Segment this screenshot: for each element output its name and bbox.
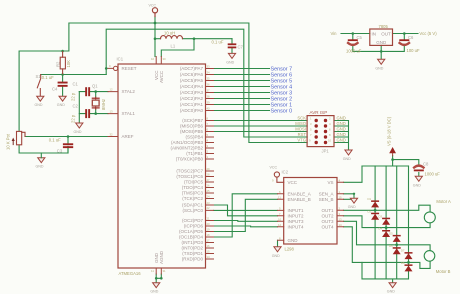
svg-text:10 K Pot: 10 K Pot xyxy=(6,133,11,150)
inductor L1 xyxy=(161,36,183,39)
svg-text:15: 15 xyxy=(339,195,343,199)
IC1 port C pin names xyxy=(176,169,203,213)
svg-text:1: 1 xyxy=(339,190,341,194)
svg-text:L298: L298 xyxy=(285,246,295,251)
svg-text:C5: C5 xyxy=(357,35,363,40)
svg-text:GND: GND xyxy=(36,165,44,169)
svg-text:(SS)PB4: (SS)PB4 xyxy=(185,135,203,140)
svg-text:24: 24 xyxy=(207,194,211,198)
Q1 labels xyxy=(92,84,106,110)
C8 labels xyxy=(423,162,440,177)
ground chip bottom xyxy=(150,283,159,294)
svg-text:8MHz: 8MHz xyxy=(101,99,106,110)
wire R2 bottom net to switch and reset xyxy=(41,74,107,76)
svg-text:(TOSC1)PC6: (TOSC1)PC6 xyxy=(176,174,203,179)
IC1 port B pin names xyxy=(170,118,203,162)
svg-text:10 uH: 10 uH xyxy=(164,31,175,36)
wire SCK MISO MOSI to ISP xyxy=(214,121,308,132)
svg-text:(T0/XCK)PB0: (T0/XCK)PB0 xyxy=(176,157,204,162)
svg-text:(ADC1)PA1: (ADC1)PA1 xyxy=(180,102,204,107)
svg-text:GND: GND xyxy=(57,103,65,107)
wire PD7 to INPUT3 xyxy=(214,220,278,223)
D7 label xyxy=(401,249,405,253)
IC2 left pin stubs xyxy=(278,194,284,241)
svg-text:(AIN1/OC0)PB3: (AIN1/OC0)PB3 xyxy=(171,140,204,145)
diode D8 xyxy=(405,264,413,271)
svg-text:8: 8 xyxy=(329,133,331,137)
svg-text:15: 15 xyxy=(207,249,211,253)
wire regulator cap stems and ground rail xyxy=(353,34,405,60)
capacitor C4 xyxy=(58,82,68,87)
svg-text:L1: L1 xyxy=(171,44,176,49)
svg-text:(TXD)PD1: (TXD)PD1 xyxy=(182,251,203,256)
svg-text:(INT0)PD2: (INT0)PD2 xyxy=(181,246,203,251)
svg-text:19: 19 xyxy=(207,227,211,231)
ground under ISP xyxy=(343,150,352,161)
wire C3 top stem xyxy=(67,137,69,144)
svg-text:36: 36 xyxy=(207,82,211,86)
svg-text:(T1)PB1: (T1)PB1 xyxy=(186,151,203,156)
svg-text:S1: S1 xyxy=(36,74,42,79)
svg-text:C6: C6 xyxy=(408,35,414,40)
svg-text:VTG: VTG xyxy=(297,138,306,143)
svg-text:(OC1A)PD5: (OC1A)PD5 xyxy=(179,229,204,234)
svg-text:SEN_A: SEN_A xyxy=(319,192,334,197)
svg-text:Sensor 0: Sensor 0 xyxy=(271,109,293,115)
ground under C7 xyxy=(226,53,235,64)
svg-text:11: 11 xyxy=(151,269,154,273)
op IC1 ATMEGA16 body xyxy=(118,64,206,268)
svg-text:9: 9 xyxy=(309,139,311,143)
svg-text:Motor A: Motor A xyxy=(436,199,451,204)
svg-text:22 p: 22 p xyxy=(71,92,76,101)
op IC2 L298 body xyxy=(284,178,337,245)
svg-text:D4: D4 xyxy=(379,227,383,231)
IC2 name label xyxy=(282,170,289,175)
svg-text:SEN_B: SEN_B xyxy=(319,197,334,202)
svg-text:GND: GND xyxy=(413,183,421,187)
svg-text:MOSI: MOSI xyxy=(295,127,306,132)
capacitor C2 xyxy=(85,109,90,118)
L1 labels xyxy=(164,31,176,49)
D1 label xyxy=(368,197,372,201)
wire AREF net from pot wiper xyxy=(25,136,108,138)
ground under pot rail xyxy=(36,153,45,169)
wire PD5 to ENABLE_B xyxy=(214,199,278,231)
capacitor C5 electrolytic xyxy=(348,39,358,45)
wire diode column 3 xyxy=(396,166,398,279)
ground under crystal caps xyxy=(74,123,83,134)
wire C4 stems xyxy=(62,75,64,97)
wire IC2 VS to rail xyxy=(344,166,363,182)
svg-text:1: 1 xyxy=(207,155,209,159)
svg-text:(RXD)PD0: (RXD)PD0 xyxy=(182,257,204,262)
C3 labels xyxy=(49,137,63,153)
svg-text:4: 4 xyxy=(339,178,341,182)
svg-text:GND: GND xyxy=(337,138,346,143)
svg-text:GND: GND xyxy=(337,132,346,137)
svg-text:14: 14 xyxy=(339,223,343,227)
svg-text:GND: GND xyxy=(376,40,387,45)
svg-text:XTAL1: XTAL1 xyxy=(122,111,136,116)
svg-text:OUT4: OUT4 xyxy=(321,225,333,230)
svg-text:C3: C3 xyxy=(57,148,63,153)
D3 label xyxy=(379,214,383,218)
svg-text:3: 3 xyxy=(339,212,341,216)
wire C8 stems xyxy=(418,173,420,177)
svg-text:(OC2)PD7: (OC2)PD7 xyxy=(182,218,204,223)
wire ISP ground side xyxy=(334,121,349,151)
wire regulator input xyxy=(341,33,370,35)
svg-text:0.1 uF: 0.1 uF xyxy=(212,39,224,44)
svg-text:39: 39 xyxy=(207,100,211,104)
svg-text:5: 5 xyxy=(310,128,312,132)
svg-text:C1: C1 xyxy=(73,82,79,87)
svg-text:21: 21 xyxy=(207,216,211,220)
svg-text:6: 6 xyxy=(279,190,281,194)
sensor net labels xyxy=(271,67,293,115)
JP1 pin number marks xyxy=(309,117,332,143)
svg-text:D5: D5 xyxy=(389,232,393,236)
svg-text:(ADC5)PA5: (ADC5)PA5 xyxy=(180,78,204,83)
motor B xyxy=(424,251,435,262)
svg-text:GND: GND xyxy=(35,103,43,107)
svg-text:ATMEGA16: ATMEGA16 xyxy=(119,271,142,276)
svg-text:Vcc (5 V): Vcc (5 V) xyxy=(419,31,437,36)
svg-text:D1: D1 xyxy=(368,197,372,201)
diode D5 xyxy=(393,235,401,242)
svg-text:GND: GND xyxy=(288,238,299,243)
svg-text:(TMS)PC3: (TMS)PC3 xyxy=(182,191,204,196)
voltage regulator 7805 xyxy=(370,29,393,45)
svg-text:32: 32 xyxy=(110,132,114,136)
svg-text:(TCK)PC2: (TCK)PC2 xyxy=(182,196,203,201)
svg-text:(MISO)PB6: (MISO)PB6 xyxy=(180,124,204,129)
svg-text:(ICP)PD6: (ICP)PD6 xyxy=(184,224,204,229)
IC1 value label xyxy=(119,271,142,276)
svg-text:GND: GND xyxy=(337,116,346,121)
wire C7 stems xyxy=(231,39,233,54)
svg-text:OUT: OUT xyxy=(381,32,391,37)
svg-text:(SCL)PC0: (SCL)PC0 xyxy=(182,208,203,213)
wire motor ground rail xyxy=(362,262,409,282)
IC1 top power pin stubs xyxy=(156,57,161,65)
C6 labels xyxy=(407,35,420,53)
wire SEN_A SEN_B to ground xyxy=(344,194,355,200)
svg-text:25: 25 xyxy=(207,189,211,193)
wire OUT1 to motor A top xyxy=(344,205,431,212)
IC1 name label xyxy=(117,57,124,62)
svg-text:(ADC3)PA3: (ADC3)PA3 xyxy=(180,90,204,95)
svg-text:OUT2: OUT2 xyxy=(321,214,333,219)
D5 label xyxy=(389,232,393,236)
svg-text:34: 34 xyxy=(207,70,211,74)
svg-text:RESET: RESET xyxy=(122,66,137,71)
ground under IC2 xyxy=(272,247,281,258)
vcc symbol top xyxy=(152,8,157,17)
IC1 pin numbers xyxy=(109,57,210,273)
potentiometer R1 xyxy=(17,131,26,144)
wire VCC rail top (line A) to ISP VTG xyxy=(19,23,307,143)
svg-text:38: 38 xyxy=(207,94,211,98)
capacitor C1 xyxy=(85,87,90,96)
svg-text:28: 28 xyxy=(207,172,211,176)
svg-text:INPUT1: INPUT1 xyxy=(288,208,305,213)
C7 labels xyxy=(212,39,244,49)
switch S1 xyxy=(37,75,40,97)
C1 labels xyxy=(71,82,79,102)
svg-text:GND: GND xyxy=(337,127,346,132)
svg-text:7: 7 xyxy=(310,133,312,137)
S1 label xyxy=(36,74,42,79)
wire XTAL1 net xyxy=(79,109,108,113)
C5 labels xyxy=(346,35,363,54)
wire diode column 2 xyxy=(385,166,387,279)
ground for SEN pins xyxy=(348,198,358,209)
wire L1 output to C7 xyxy=(183,38,233,40)
svg-text:100 uF: 100 uF xyxy=(407,48,420,53)
wire regulator output xyxy=(393,33,419,35)
svg-text:8: 8 xyxy=(279,236,281,240)
svg-text:4: 4 xyxy=(329,122,331,126)
svg-text:0.1 uF: 0.1 uF xyxy=(42,75,54,80)
svg-text:D3: D3 xyxy=(379,214,383,218)
svg-text:(INT1)PD3: (INT1)PD3 xyxy=(181,240,203,245)
svg-text:30: 30 xyxy=(163,57,167,61)
svg-text:GND: GND xyxy=(387,290,395,294)
svg-text:D8: D8 xyxy=(401,261,405,265)
D6 label xyxy=(389,244,393,248)
svg-text:JP1: JP1 xyxy=(322,149,330,154)
VS supply label xyxy=(386,116,391,146)
IC2 VCC bubble pin xyxy=(274,172,283,182)
motor A label xyxy=(436,199,451,204)
crystal Q1 xyxy=(92,97,100,109)
IC1 RESET bubble xyxy=(114,66,118,70)
Vcc 5V label xyxy=(419,31,437,36)
svg-text:(OC1B)PD4: (OC1B)PD4 xyxy=(179,235,204,240)
svg-text:1000 uF: 1000 uF xyxy=(346,49,362,54)
svg-text:9: 9 xyxy=(272,178,274,182)
svg-text:7: 7 xyxy=(207,122,209,126)
wire VS rail over diode columns xyxy=(362,165,409,167)
svg-text:GND: GND xyxy=(343,157,351,161)
svg-text:INPUT3: INPUT3 xyxy=(288,219,305,224)
svg-text:18: 18 xyxy=(207,233,211,237)
svg-text:GND: GND xyxy=(337,121,346,126)
resistor R2 xyxy=(60,52,65,75)
wire OUT4 to motor B bottom xyxy=(344,227,431,269)
wire VCC symbol stem down to chip VCC pin xyxy=(154,17,156,57)
JP1 pin dots xyxy=(315,119,328,144)
svg-text:22: 22 xyxy=(207,206,211,210)
svg-text:OUT3: OUT3 xyxy=(321,219,333,224)
svg-text:GND: GND xyxy=(375,66,383,70)
svg-text:1000 uF: 1000 uF xyxy=(425,171,441,176)
svg-text:22 p: 22 p xyxy=(71,114,76,123)
svg-text:AGND: AGND xyxy=(159,250,164,264)
svg-text:Motor B: Motor B xyxy=(436,269,451,274)
ground under regulator xyxy=(375,59,384,70)
svg-text:5: 5 xyxy=(207,133,209,137)
IC1 port A pin names xyxy=(180,66,204,113)
Vin label xyxy=(331,31,338,36)
svg-text:C8: C8 xyxy=(423,162,429,167)
capacitor C8 electrolytic xyxy=(414,166,424,172)
svg-text:14: 14 xyxy=(207,255,211,259)
capacitor C3 xyxy=(63,143,73,148)
wire PD4 to ENABLE_A xyxy=(214,194,278,237)
IC2 pin numbers xyxy=(272,178,342,240)
JP1 left net labels xyxy=(295,116,306,143)
ground under C4 xyxy=(57,96,66,107)
svg-text:10K: 10K xyxy=(66,60,71,68)
svg-text:D6: D6 xyxy=(389,244,393,248)
svg-text:10: 10 xyxy=(278,217,282,221)
wire PC1 to INPUT2 xyxy=(214,205,278,216)
svg-text:GND: GND xyxy=(348,205,356,209)
diode D4 xyxy=(382,230,390,237)
svg-text:MISO: MISO xyxy=(295,121,306,126)
svg-text:7805: 7805 xyxy=(379,24,389,29)
svg-text:2: 2 xyxy=(339,206,341,210)
wire diode column 1 xyxy=(374,166,376,279)
IC1 left pin stubs xyxy=(108,68,118,136)
svg-text:VS (9-18 V DC): VS (9-18 V DC) xyxy=(386,116,391,146)
svg-text:D7: D7 xyxy=(401,249,405,253)
vcc symbol label xyxy=(149,4,157,8)
svg-text:Q1: Q1 xyxy=(92,84,98,89)
capacitor C6 electrolytic xyxy=(399,39,409,45)
svg-text:35: 35 xyxy=(207,76,211,80)
regulator labels xyxy=(372,24,392,45)
svg-text:6: 6 xyxy=(207,127,209,131)
IC1 left pin names xyxy=(122,66,137,139)
svg-text:IN: IN xyxy=(372,32,377,37)
ground under motor rail xyxy=(387,283,396,294)
D2 label xyxy=(368,209,372,213)
svg-text:IC2: IC2 xyxy=(282,170,289,175)
IC2 right pin stubs xyxy=(337,182,344,227)
wire chip ground pins xyxy=(156,274,161,283)
svg-text:10: 10 xyxy=(151,57,155,61)
svg-text:3: 3 xyxy=(310,122,312,126)
wire PC0 to INPUT1 xyxy=(214,209,278,211)
svg-text:16: 16 xyxy=(207,244,211,248)
svg-text:9: 9 xyxy=(109,64,111,68)
svg-text:23: 23 xyxy=(207,201,211,205)
svg-text:(SDA)PC1: (SDA)PC1 xyxy=(182,203,204,208)
svg-text:GND: GND xyxy=(226,60,234,64)
wire XTAL2 net xyxy=(79,92,108,97)
svg-text:C4: C4 xyxy=(52,87,58,92)
diode D3 xyxy=(382,218,390,225)
C4 labels xyxy=(42,75,58,92)
svg-text:5: 5 xyxy=(279,206,281,210)
svg-text:ENABLE_B: ENABLE_B xyxy=(288,197,311,202)
svg-text:RST: RST xyxy=(298,132,307,137)
capacitor C7 xyxy=(228,43,237,48)
svg-text:(TDO)PC4: (TDO)PC4 xyxy=(182,185,204,190)
svg-text:17: 17 xyxy=(207,238,211,242)
svg-text:26: 26 xyxy=(207,183,211,187)
svg-text:VCC: VCC xyxy=(149,4,157,8)
svg-text:(ADC6)PA6: (ADC6)PA6 xyxy=(180,72,204,77)
svg-text:11: 11 xyxy=(278,195,281,199)
svg-text:(SCK)PB7: (SCK)PB7 xyxy=(182,118,203,123)
wire C3 bottom stem xyxy=(67,146,69,153)
wire diode column 4 xyxy=(408,166,410,279)
svg-text:C2: C2 xyxy=(73,104,79,109)
IC1 bottom ground pin stubs xyxy=(156,268,161,274)
D4 label xyxy=(379,227,383,231)
wire L1 input tap xyxy=(155,38,161,40)
IC1 right pin stubs xyxy=(206,69,214,260)
svg-text:12: 12 xyxy=(110,87,114,91)
svg-text:C7: C7 xyxy=(238,45,244,50)
IC1 port D pin names xyxy=(179,218,204,262)
svg-text:VS: VS xyxy=(327,180,333,185)
svg-text:(TDI)PC5: (TDI)PC5 xyxy=(184,180,203,185)
diode D6 xyxy=(393,247,401,254)
svg-text:OUT1: OUT1 xyxy=(321,208,333,213)
svg-text:AVCC: AVCC xyxy=(159,70,164,83)
svg-text:INPUT2: INPUT2 xyxy=(288,214,305,219)
IC2 right pin names xyxy=(319,180,334,230)
svg-text:3: 3 xyxy=(207,144,209,148)
ground under S1 xyxy=(35,96,44,107)
R1 label xyxy=(6,133,11,150)
svg-text:0.1 uF: 0.1 uF xyxy=(49,137,61,142)
svg-text:(ADC7)PA7: (ADC7)PA7 xyxy=(180,66,204,71)
svg-text:13: 13 xyxy=(339,217,343,221)
svg-text:R2: R2 xyxy=(55,61,60,67)
diode D2 xyxy=(371,213,379,220)
svg-text:40: 40 xyxy=(207,106,211,110)
svg-text:Vin: Vin xyxy=(331,31,338,36)
svg-text:(ADC0)PA0: (ADC0)PA0 xyxy=(180,108,204,113)
svg-text:SCK: SCK xyxy=(297,116,306,121)
VS supply arrow xyxy=(389,147,396,156)
wire pot bottom rail to C3 xyxy=(19,145,68,153)
svg-text:33: 33 xyxy=(207,64,211,68)
wire AVCC jog from L1 output xyxy=(161,39,194,57)
wire OUT2 to motor A bottom xyxy=(344,216,431,228)
svg-text:AREF: AREF xyxy=(122,134,134,139)
IC2 left pin names xyxy=(288,180,311,243)
svg-text:1: 1 xyxy=(310,117,312,121)
motor B label xyxy=(436,269,451,274)
svg-text:31: 31 xyxy=(163,269,167,273)
R1 wiper arrow xyxy=(12,138,15,145)
svg-text:29: 29 xyxy=(207,167,211,171)
svg-text:27: 27 xyxy=(207,178,211,182)
D8 label xyxy=(401,261,405,265)
wire sensor lines PA7-PA0 xyxy=(214,69,270,111)
wire VS arrow stem and C8 branch xyxy=(393,156,419,167)
svg-text:GND: GND xyxy=(74,130,82,134)
svg-text:XTAL2: XTAL2 xyxy=(122,89,136,94)
svg-text:20: 20 xyxy=(207,222,211,226)
diode D7 xyxy=(405,252,413,259)
svg-text:(AIN0/INT2)PB2: (AIN0/INT2)PB2 xyxy=(170,146,203,151)
wire RESET net (line B) to ISP RST xyxy=(106,29,307,137)
svg-text:37: 37 xyxy=(207,88,211,92)
AVR ISP title xyxy=(310,110,328,115)
wire PD6 to INPUT4 xyxy=(214,225,278,228)
svg-text:IC1: IC1 xyxy=(117,57,124,62)
svg-text:2: 2 xyxy=(207,149,209,153)
